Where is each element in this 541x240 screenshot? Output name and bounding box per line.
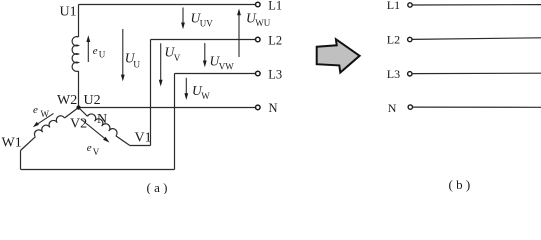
terminal N (b) (408, 105, 412, 109)
svg-text:L3: L3 (387, 67, 400, 81)
svg-text:N: N (97, 112, 107, 127)
svg-text:W2: W2 (57, 93, 77, 108)
svg-text:N: N (269, 101, 278, 115)
terminal N (255, 105, 260, 110)
terminal L2 (255, 37, 260, 42)
wire L3 (b) (412, 72, 541, 74)
svg-text:W: W (41, 109, 50, 119)
wire bottom (21, 169, 175, 171)
svg-text:U: U (133, 61, 140, 71)
arrow U_U (122, 29, 124, 75)
svg-text:e: e (93, 45, 98, 57)
block arrow (317, 39, 360, 72)
wire W coil to W1 corner (21, 137, 36, 151)
arrow U_VW (204, 43, 206, 61)
arrow e_W (38, 113, 54, 123)
svg-text:W: W (201, 91, 210, 101)
wire L2 vertical to V1 (150, 40, 152, 146)
winding W (coil W2-W1) (34, 116, 64, 137)
wire U winding vertical bottom (78, 71, 80, 108)
arrow U_WU (238, 15, 240, 58)
wire L3 vertical down (174, 74, 176, 170)
svg-text:L2: L2 (268, 33, 282, 47)
wire L2 horizontal (151, 39, 256, 41)
svg-text:V: V (174, 53, 181, 63)
svg-text:W1: W1 (2, 136, 22, 151)
terminal L1 (255, 2, 260, 7)
wire U1 top to L1 (79, 4, 256, 6)
wire L3 horizontal (175, 73, 256, 75)
svg-text:UV: UV (200, 19, 213, 29)
terminal L3 (b) (408, 72, 412, 76)
wire N line (star point to terminal N) (79, 107, 256, 109)
wire W1 vertical (20, 151, 22, 170)
svg-text:N: N (388, 101, 397, 115)
wire U winding vertical top (78, 5, 80, 38)
node star point W2/U2 (76, 105, 80, 109)
arrow U_UV (182, 8, 184, 24)
wire V1 horizontal (130, 145, 151, 147)
arrow e_V (81, 119, 105, 139)
svg-text:VW: VW (219, 62, 234, 72)
wire N (b) (413, 106, 541, 108)
winding V (coil V2-V1) (88, 114, 118, 136)
svg-text:V1: V1 (135, 131, 152, 146)
wire L2 (b) (412, 38, 541, 40)
svg-text:L2: L2 (387, 33, 400, 47)
wire lead junction to V2 coil (79, 108, 88, 117)
svg-text:L1: L1 (268, 0, 282, 12)
wire L1 (b) (412, 4, 541, 6)
svg-text:( a ): ( a ) (147, 180, 168, 194)
terminal L2 (b) (408, 37, 412, 41)
svg-text:V2: V2 (70, 117, 87, 132)
svg-text:U1: U1 (60, 5, 77, 20)
terminal L3 (255, 71, 260, 76)
svg-text:e: e (33, 104, 38, 116)
arrow U_W (185, 78, 187, 94)
wire V coil to V1 corner (116, 136, 130, 145)
arrow U_V (160, 43, 162, 80)
wire lead junction to W2 coil (65, 108, 79, 119)
svg-text:U2: U2 (84, 93, 101, 108)
arrow e_U (87, 41, 89, 62)
svg-text:L1: L1 (387, 0, 400, 12)
svg-text:WU: WU (255, 18, 270, 28)
svg-text:e: e (87, 142, 92, 154)
svg-text:L3: L3 (268, 67, 282, 81)
svg-text:V: V (93, 147, 100, 157)
winding U (coil U1-U2) (72, 37, 78, 72)
svg-text:( b ): ( b ) (449, 177, 471, 192)
terminal L1 (b) (408, 3, 412, 7)
svg-text:U: U (99, 50, 106, 60)
